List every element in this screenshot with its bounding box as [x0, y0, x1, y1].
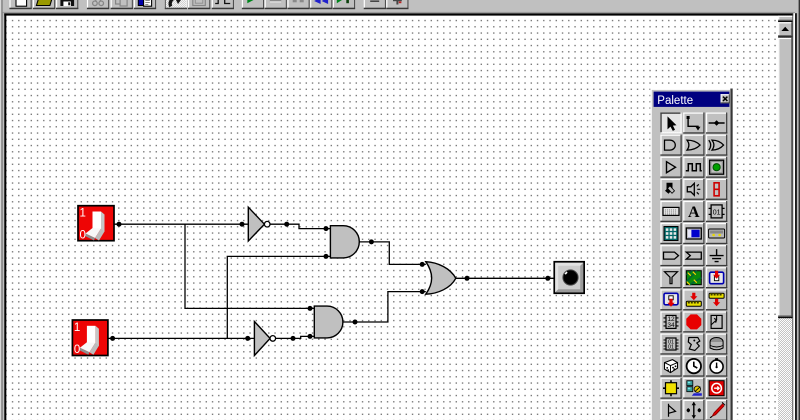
palette tool: text label: [683, 201, 704, 222]
palette tool: buffer: [660, 157, 681, 178]
toolbar face: [3, 0, 799, 13]
palette tool: keyboard: [660, 201, 681, 222]
CIRCUIT: [72, 206, 584, 357]
palette tool: export: [660, 289, 681, 310]
svg-text:0: 0: [74, 344, 80, 356]
svg-text:Palette: Palette: [657, 95, 693, 107]
svg-text:01: 01: [713, 209, 721, 216]
palette window frame: [650, 89, 732, 420]
node: U1 input junction: [240, 222, 245, 227]
palette tool: switch: [660, 179, 681, 200]
button: Open: [33, 0, 55, 9]
palette tool: keypad: [660, 223, 681, 244]
LED D1: [554, 262, 584, 293]
node: U3 bottom input junction: [324, 254, 329, 259]
node: U5 bottom input junction: [420, 289, 425, 294]
node: U4 bottom input junction: [308, 334, 313, 339]
palette tool: embed macro: [660, 378, 681, 399]
palette tool: stretch: [683, 400, 704, 420]
node: U2 input junction: [245, 336, 250, 341]
node: U4 top input junction: [308, 306, 313, 311]
svg-text:34: 34: [667, 322, 675, 329]
svg-text:1: 1: [74, 322, 80, 334]
palette tool: buzzer: [706, 334, 727, 355]
palette tool: tape: [706, 223, 727, 244]
button: rewind (blue): [310, 0, 332, 9]
wire: switch SW1 output to inverter U1 input: [114, 223, 248, 225]
scrollbar track: [778, 16, 792, 420]
button: pan tool (pressed): [165, 0, 187, 9]
palette tool: halt: [706, 378, 727, 399]
OR gate U5: [426, 262, 456, 295]
button: stop: [265, 0, 287, 9]
button: New: [9, 0, 31, 9]
palette tool: display: [683, 223, 704, 244]
node: SW1 output junction: [117, 222, 122, 227]
palette tool: timer: [706, 356, 727, 377]
SCROLLBAR: [778, 16, 792, 420]
wire: AND gate U4 output to OR gate U5 bottom input: [343, 292, 426, 322]
node: LED D1 input junction: [545, 276, 550, 281]
palette close button: [721, 94, 730, 103]
button: pause: [287, 0, 309, 9]
button: Cut (disabled): [87, 0, 109, 9]
palette tool: OR gate: [683, 135, 704, 156]
palette tool: clock: [683, 356, 704, 377]
window left edge: [0, 0, 1, 420]
palette tool: bus mux: [683, 245, 704, 266]
button: waveform: [212, 0, 234, 9]
palette tool: node: [706, 113, 727, 134]
button: Save: [56, 0, 78, 9]
palette tool: ground: [706, 245, 727, 266]
palette tool: import: [706, 267, 727, 288]
canvas sunken black border: [4, 13, 795, 16]
switch SW2: [72, 320, 108, 356]
palette tool: memory read: [706, 289, 727, 310]
PALETTE: [650, 89, 732, 420]
palette tool: counter IC: [660, 311, 681, 332]
palette tool: flip-flop: [706, 311, 727, 332]
palette tool: random: [660, 356, 681, 377]
wire: switch SW2 net branch up to AND gate U3 bottom input: [227, 256, 330, 338]
node: U5 top input junction: [420, 262, 425, 267]
wire: OR gate U5 output to LED D1: [456, 277, 555, 279]
palette tool: LED: [706, 157, 727, 178]
button: Copy (disabled): [111, 0, 133, 9]
button: zoom in: [386, 0, 408, 9]
wire: branch from SW1 net down to AND gate U4 top input: [185, 224, 314, 308]
AND gate U3: [330, 226, 359, 258]
button: preview (disabled): [188, 0, 210, 9]
palette tool: memory write: [683, 289, 704, 310]
palette tool: XOR gate: [706, 135, 727, 156]
window right edge columns: [792, 0, 800, 420]
node: U2 output junction: [291, 336, 296, 341]
svg-text:A: A: [688, 204, 700, 221]
node: U1 output junction: [284, 222, 289, 227]
switch SW1: [78, 206, 114, 242]
scrollbar up button: [778, 22, 792, 36]
palette tool: IC: [706, 201, 727, 222]
palette tool: workstation: [683, 378, 704, 399]
node: SW2 output junction: [110, 336, 115, 341]
node: U5 output junction: [465, 276, 470, 281]
inverter U1: [248, 207, 270, 241]
palette tool: annotate flag: [660, 400, 681, 420]
palette tool: pen: [706, 400, 727, 420]
node: U3 output junction: [369, 239, 374, 244]
palette tool: pointer (selected): [660, 113, 681, 134]
palette tool: clock pulse: [683, 157, 704, 178]
palette tool: probe: [660, 267, 681, 288]
palette tool: sequence: [683, 267, 704, 288]
wire: inverter U2 output to AND gate U4 bottom input: [276, 336, 315, 338]
button: zoom out: [364, 0, 386, 9]
palette tool: macro: [683, 334, 704, 355]
node: U3 top input junction: [324, 226, 329, 231]
palette tool: bus: [660, 245, 681, 266]
svg-text:01: 01: [668, 345, 674, 351]
palette tool: AND gate: [660, 135, 681, 156]
scrollbar split box: [778, 16, 792, 21]
button: run (green play): [242, 0, 264, 9]
inverter U2: [254, 322, 275, 356]
svg-text:1: 1: [80, 208, 86, 220]
svg-text:0: 0: [80, 230, 86, 242]
button: Paste: [134, 0, 156, 9]
scrollbar thumb: [778, 38, 792, 317]
node: U4 output junction: [353, 320, 358, 325]
palette tool: stop: [683, 311, 704, 332]
button: step (green): [333, 0, 355, 9]
palette title bar: [654, 92, 730, 107]
palette tool: wire: [683, 113, 704, 134]
wire: AND gate U3 output to OR gate U5 top input: [359, 242, 426, 265]
palette tool: ROM IC: [660, 334, 681, 355]
wire: switch SW2 output to inverter U2 input: [108, 337, 254, 339]
palette tool: speaker: [683, 179, 704, 200]
TOOLBAR: [3, 0, 799, 13]
wire: inverter U1 output to AND gate U3 top input: [270, 224, 331, 228]
palette tool: seven-segment: [706, 179, 727, 200]
AND gate U4: [314, 306, 343, 338]
